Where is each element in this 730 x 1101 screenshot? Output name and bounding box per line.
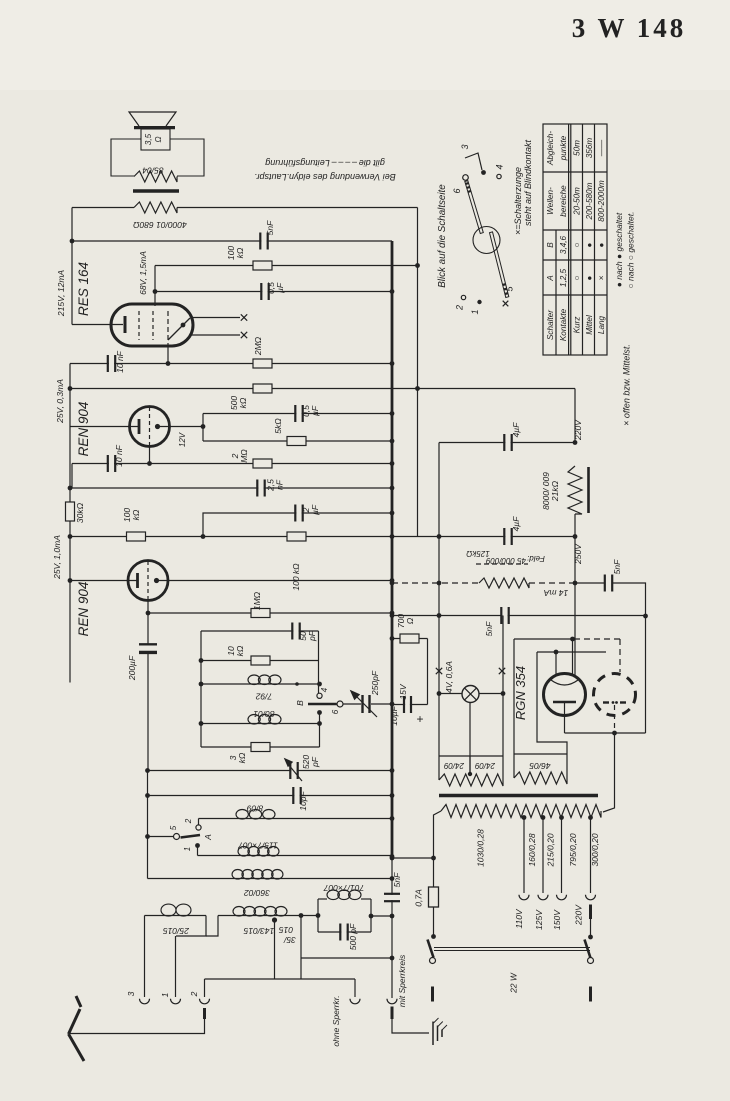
- node bus / 2M: [390, 361, 395, 366]
- wire coil 7/92 line y684: [201, 683, 320, 685]
- node rail B grid V3: [68, 578, 73, 583]
- coil L3 8/09: [236, 810, 248, 820]
- wire to ground: [392, 1019, 429, 1033]
- capacitor 500pF C19: [341, 923, 346, 942]
- vertical 80/01 to 3k: [319, 724, 321, 748]
- wire 5nF to corner: [613, 583, 646, 616]
- svg-text:015: 015: [279, 925, 293, 935]
- loop right vertical: [370, 899, 372, 932]
- wire 1M line y613: [148, 612, 392, 614]
- svg-text:200µF: 200µF: [127, 655, 137, 681]
- node 220V: [573, 440, 578, 445]
- resistor 30k R6: [66, 502, 75, 521]
- svg-text:3: 3: [126, 991, 136, 996]
- svg-text:6: 6: [331, 709, 340, 714]
- vertical 50pF to contact4: [318, 631, 320, 693]
- wire 360/02 line y878: [148, 878, 393, 880]
- svg-text:110V: 110V: [514, 908, 524, 929]
- wire V3 cathode drop: [147, 601, 149, 646]
- wire 25/015 line y916: [145, 915, 207, 917]
- wire 0,5uF line y414: [203, 413, 392, 415]
- node cathode 1M junction: [146, 611, 151, 616]
- svg-text:Wellen-: Wellen-: [546, 187, 555, 215]
- wire 100k line y536: [70, 536, 392, 538]
- svg-text:4µF: 4µF: [511, 516, 521, 532]
- wire 5nF line y615: [392, 615, 646, 617]
- switch A contact 5: [174, 834, 180, 840]
- wire 680ohm line left to rail A: [72, 207, 134, 209]
- node switch right: [588, 935, 593, 940]
- node cathode join: [612, 731, 617, 736]
- vertical 21k to 250V: [574, 514, 576, 537]
- switch A contact 2: [196, 825, 201, 830]
- switch link lines: [434, 947, 590, 949]
- tube V1 grid 1 dashed: [138, 311, 140, 340]
- x contact mark upper: [241, 314, 247, 320]
- node rail A / 5nF line: [70, 239, 75, 244]
- wire y979 ohne Sperrkreis: [205, 978, 356, 980]
- svg-text:steht auf Blindkontakt: steht auf Blindkontakt: [523, 139, 533, 226]
- capacitor 200uF C8: [138, 646, 158, 652]
- svg-text:Blick auf die Schaltseite: Blick auf die Schaltseite: [437, 184, 448, 288]
- node bus 100k line: [390, 534, 395, 539]
- resistor 1M R9: [251, 609, 270, 618]
- svg-text:5nF: 5nF: [612, 559, 622, 574]
- svg-text:REN 904: REN 904: [76, 582, 91, 637]
- terminal 125V: [538, 895, 548, 900]
- capacitor 10uF C11: [405, 695, 410, 714]
- socket 2: [200, 999, 210, 1004]
- wire 8/09 line y818: [199, 818, 393, 820]
- svg-text:2MΩ: 2MΩ: [253, 336, 263, 356]
- vertical x503 lamp to heater: [502, 616, 504, 781]
- wire speaker loop right: [170, 139, 204, 176]
- vertical x439 left of lamp block: [438, 443, 440, 781]
- svg-text:85/04: 85/04: [142, 166, 164, 176]
- wire 100k anode line y265: [155, 265, 418, 267]
- wire rect top y639: [514, 638, 573, 640]
- svg-text:795/0,20: 795/0,20: [568, 833, 578, 866]
- coil tap 143: [272, 917, 277, 922]
- svg-text:125V: 125V: [534, 909, 544, 930]
- resistor 2M R2: [253, 359, 272, 368]
- svg-text:kΩ: kΩ: [237, 752, 247, 763]
- antenna symbol: [69, 1009, 81, 1034]
- node bus 0,5uF C4: [390, 411, 395, 416]
- svg-text:356m: 356m: [585, 138, 594, 159]
- switch contact 3 solid: [317, 710, 322, 715]
- node x417 100k line: [415, 263, 420, 268]
- wire 250V to 5nF right: [575, 582, 604, 584]
- node fuse top: [431, 856, 436, 861]
- tube V3 anode dot: [154, 578, 159, 583]
- wire 220V to switch: [590, 919, 592, 937]
- corner 700ohm down: [427, 639, 429, 705]
- tube V4 cathode stub: [564, 703, 566, 733]
- tap lead down: [274, 920, 276, 979]
- x mark shaft: [503, 301, 509, 307]
- svg-text:215/0,20: 215/0,20: [546, 833, 556, 867]
- node bus 2,5nF: [390, 486, 395, 491]
- switch contact 4 open: [317, 693, 322, 698]
- capacitor 50pF C9: [293, 622, 298, 641]
- wire speaker loop left: [111, 139, 141, 176]
- svg-text:12V: 12V: [178, 432, 187, 447]
- svg-text:1MΩ: 1MΩ: [252, 591, 262, 610]
- node 250V: [573, 534, 578, 539]
- wire 115/7x007 line y855: [198, 855, 393, 857]
- antenna lead wire: [69, 1019, 205, 1034]
- wire coil 80/01 line y723: [201, 723, 320, 725]
- node rail C 520pF: [145, 768, 150, 773]
- winding 24/09 zigzag: [439, 774, 503, 786]
- node bus 5nF line: [390, 613, 395, 618]
- svg-text:25V, 1,0mA: 25V, 1,0mA: [52, 535, 62, 580]
- svg-text:●: ●: [585, 275, 594, 280]
- coil L7 143/015: [233, 907, 245, 917]
- node 80/01 right: [317, 721, 322, 726]
- node bus 1M: [390, 611, 395, 616]
- wire 500k line y389: [70, 388, 418, 390]
- svg-text:50m: 50m: [573, 140, 582, 156]
- svg-text:46/05: 46/05: [529, 761, 551, 771]
- node bus 250pF: [390, 702, 395, 707]
- shaft hatch bottom: [503, 283, 506, 286]
- svg-text:punkte: punkte: [559, 135, 568, 161]
- coil L2 80/01: [248, 715, 260, 725]
- vertical anode lead RES164 x155: [154, 266, 156, 307]
- node 7/92 right: [295, 682, 299, 686]
- svg-text:24/09: 24/09: [474, 761, 496, 770]
- svg-text:Kurz: Kurz: [573, 317, 582, 334]
- vertical HT secondary x614: [603, 733, 615, 812]
- svg-text:●: ●: [585, 242, 594, 247]
- wire 520pF line y771: [148, 770, 393, 772]
- svg-text:× offen bzw. Mittelst.: × offen bzw. Mittelst.: [622, 344, 632, 426]
- vertical filament lead: [555, 652, 557, 675]
- svg-text:20-50m: 20-50m: [573, 187, 582, 216]
- terminal 220V: [586, 895, 596, 900]
- wire 2uF line y513: [203, 513, 392, 537]
- stub contact3 to 80/01: [319, 713, 321, 724]
- resistor 5k R4: [287, 437, 306, 446]
- svg-text:Bei Verwendung des eldyn.Lauts: Bei Verwendung des eldyn.Lautspr.: [254, 172, 395, 182]
- loop bottom wire: [318, 931, 371, 933]
- capacitor 5nF C1: [261, 232, 266, 251]
- svg-text:15V: 15V: [398, 683, 408, 699]
- node 68V: [153, 289, 158, 294]
- svg-text:REN 904: REN 904: [76, 402, 91, 457]
- svg-text:×: ×: [597, 275, 606, 280]
- vertical anode link x203: [202, 414, 204, 442]
- svg-text:○: ○: [573, 275, 582, 280]
- wire bus thin x392 down: [391, 858, 393, 998]
- tube V4 RGN354 solid bulb: [544, 674, 586, 716]
- svg-text:+: +: [416, 712, 423, 726]
- svg-text:0,7A: 0,7A: [414, 889, 424, 907]
- tube V4 cathode bar: [553, 701, 576, 704]
- center tap 24/09: [469, 703, 471, 774]
- wire 700ohm y638: [392, 638, 428, 640]
- capacitor 5nF C16 on bus: [383, 895, 401, 900]
- svg-text:bereiche: bereiche: [559, 185, 568, 217]
- svg-text:MΩ: MΩ: [239, 449, 249, 463]
- node bus 2uF: [390, 511, 395, 516]
- resistor 100k R8: [287, 532, 306, 541]
- node 2uF drop: [201, 534, 206, 539]
- node 143 right: [299, 913, 304, 918]
- wire cathode line y463: [72, 463, 392, 465]
- switch bar right: [589, 987, 592, 1002]
- tap lead 110V: [523, 818, 525, 894]
- svg-text:35/: 35/: [282, 935, 295, 945]
- tap dots: [522, 815, 527, 820]
- corner lead down to rail join: [71, 464, 73, 488]
- svg-text:RGN 354: RGN 354: [513, 666, 528, 720]
- tube V2 anode dot: [155, 424, 160, 429]
- capacitor 2,5nF C6: [258, 479, 263, 498]
- winding 46/05 right lead: [537, 652, 567, 778]
- svg-text:ohne Sperrkr.: ohne Sperrkr.: [331, 995, 341, 1046]
- node bus / 0,5uF: [390, 289, 395, 294]
- switch blade right: [585, 940, 591, 959]
- tube V1 grid 3 dash-dot: [167, 311, 169, 345]
- svg-text:5nF: 5nF: [484, 621, 494, 636]
- tube V2 REN904 envelope: [130, 407, 170, 447]
- shaft hatch top: [466, 183, 469, 184]
- shaft upper: [465, 181, 484, 234]
- fuse 0,7A: [429, 887, 439, 907]
- svg-text:24/09: 24/09: [443, 761, 465, 770]
- svg-text:8/09: 8/09: [246, 804, 263, 814]
- node bus 5k: [390, 439, 395, 444]
- wire lamp right: [479, 693, 503, 695]
- dashed stub V4b: [614, 705, 616, 731]
- tube V1 grid 2 dashed: [152, 311, 154, 340]
- vertical 250V down x575: [574, 537, 576, 677]
- vertical left to socket3: [144, 916, 146, 998]
- trimmer 520pF C17: [291, 761, 296, 780]
- svg-text:5kΩ: 5kΩ: [273, 418, 283, 434]
- shaft lower: [490, 232, 509, 298]
- svg-text:Schalter: Schalter: [546, 310, 555, 340]
- resistor 100k R1: [253, 261, 272, 270]
- contact 3 dot: [481, 170, 486, 175]
- tap lead 125V: [542, 818, 544, 894]
- switch A contact 1: [195, 843, 200, 848]
- svg-text:250pF: 250pF: [370, 670, 380, 696]
- node 10k left: [199, 658, 204, 663]
- box left x514: [513, 639, 515, 778]
- node bus 115/7: [390, 854, 395, 859]
- lamp LA1: [462, 686, 479, 703]
- node x439 on 4uF line: [437, 534, 442, 539]
- wire antenna coupling y958: [301, 957, 392, 959]
- rotor circle: [473, 227, 500, 254]
- field coil dashed zigzag 45000/009: [479, 578, 529, 588]
- svg-text:160/0,28: 160/0,28: [527, 833, 537, 866]
- wire V3 anode line: [157, 580, 393, 582]
- capacitor 250pF variable C10: [361, 695, 371, 713]
- resistor 700ohm R12: [400, 634, 419, 643]
- tube V2 grid dashed: [149, 407, 151, 446]
- svg-text:25/015: 25/015: [163, 926, 190, 936]
- arrow 520pF: [288, 764, 302, 781]
- svg-text:µF: µF: [275, 282, 285, 293]
- vertical x417 (215V rail): [417, 208, 419, 537]
- svg-text:220V: 220V: [573, 419, 583, 441]
- wave range table: [543, 124, 607, 355]
- node bus 700ohm: [390, 636, 395, 641]
- svg-text:4µF: 4µF: [511, 422, 521, 438]
- svg-text:1: 1: [183, 847, 192, 851]
- svg-text:kΩ: kΩ: [131, 509, 141, 520]
- node rect top: [570, 637, 575, 642]
- svg-text:10 nF: 10 nF: [114, 444, 124, 467]
- arrow of 250pF: [356, 696, 377, 717]
- node bus 8/09: [390, 816, 395, 821]
- svg-text:5: 5: [169, 825, 178, 830]
- svg-text:RES 164: RES 164: [76, 262, 91, 316]
- svg-text:4: 4: [495, 164, 505, 169]
- capacitor 10pF C18: [294, 786, 299, 805]
- coil L6 25/015: [161, 904, 176, 916]
- svg-text:800-2000m: 800-2000m: [597, 180, 606, 222]
- coil L1 7/92: [248, 675, 260, 685]
- node loop line: [390, 914, 395, 919]
- svg-text:Abgleich-: Abgleich-: [546, 131, 555, 166]
- svg-text:22 W: 22 W: [509, 972, 519, 994]
- node bus field line: [390, 581, 395, 586]
- contact 1 shaft: [477, 300, 481, 304]
- svg-text:µF: µF: [310, 405, 320, 416]
- speaker LS1 cone: [129, 112, 176, 126]
- mains primary zigzag 1030/0,28: [441, 805, 601, 818]
- svg-text:kΩ: kΩ: [238, 397, 248, 408]
- svg-text:Lang: Lang: [597, 315, 606, 334]
- node rail B 2,5nF: [68, 486, 73, 491]
- rail A vertical x72: [71, 208, 73, 325]
- svg-text:6: 6: [452, 188, 462, 193]
- capacitor 5nF C15: [502, 606, 507, 625]
- svg-text:Ω: Ω: [154, 136, 163, 142]
- transformer T1 secondary 4000/01 680ohm zigzag: [134, 202, 177, 213]
- node bus 2M R5: [390, 461, 395, 466]
- wire V2 grid line: [70, 426, 138, 428]
- svg-text:B: B: [295, 700, 305, 706]
- svg-text:2: 2: [184, 818, 193, 824]
- wire 10k line y660: [201, 660, 319, 662]
- svg-text:4000/01 680Ω: 4000/01 680Ω: [133, 220, 187, 230]
- switch blade left: [428, 940, 434, 958]
- capacitor 2uF C7: [296, 504, 301, 523]
- node field line right: [573, 581, 578, 586]
- svg-text:nF: nF: [275, 479, 285, 490]
- bar mit Sperrkreis: [391, 1007, 394, 1020]
- svg-text:7/92: 7/92: [255, 692, 272, 702]
- tap lead 220V: [590, 818, 592, 894]
- winding 46/05 top line: [514, 753, 567, 755]
- dashed field wire left part: [392, 582, 479, 584]
- svg-text:4: 4: [320, 687, 329, 692]
- node x439 5nF: [437, 613, 442, 618]
- transformer T1 core bar: [133, 189, 179, 192]
- vertical x645 down: [645, 616, 647, 733]
- socket ohne Sperrkr: [354, 979, 356, 997]
- svg-text:215V, 12mA: 215V, 12mA: [56, 270, 66, 317]
- wire V3 grid line: [70, 580, 137, 582]
- wire 2,5nF line y488: [70, 487, 392, 489]
- capacitor 10nF C5: [109, 454, 114, 473]
- node rail B 100k: [68, 534, 73, 539]
- coil L4 115/7x007: [238, 847, 249, 857]
- svg-text:115/7×007: 115/7×007: [238, 841, 278, 851]
- terminal 150V: [557, 895, 567, 900]
- bar beside 21k: [587, 467, 590, 513]
- socket mit Sperrkreis: [387, 999, 397, 1004]
- tube V1 anode diagonal: [168, 318, 190, 340]
- contact 6 open: [463, 175, 469, 181]
- x mark left lamp: [436, 668, 442, 674]
- divider 24/09: [469, 756, 471, 772]
- node rail C switch A: [145, 834, 150, 839]
- capacitor 5nF C14: [606, 574, 611, 593]
- svg-text:10pF: 10pF: [298, 791, 308, 811]
- svg-text:Mittel: Mittel: [585, 315, 594, 335]
- plug bar socket2: [203, 1008, 206, 1019]
- svg-text:68V, 1,5mA: 68V, 1,5mA: [138, 251, 148, 295]
- wire cathode bottom y733: [565, 732, 646, 734]
- svg-text:3,4,6: 3,4,6: [559, 235, 568, 254]
- winding 24/09 top line: [439, 755, 503, 757]
- node loop left: [316, 913, 321, 918]
- wire lamp left: [439, 693, 462, 695]
- node rail B 25V line: [68, 386, 73, 391]
- dashed vertical to anode2: [619, 639, 621, 672]
- wire V1 grid3 lead down: [167, 345, 169, 364]
- capacitor 4uF C12: [505, 433, 510, 452]
- svg-text:kΩ: kΩ: [235, 645, 245, 656]
- coil L8 701/7x007: [318, 898, 327, 900]
- node rail C 10pF: [145, 793, 150, 798]
- node loop right: [369, 914, 374, 919]
- fuse lead lower: [433, 907, 435, 937]
- svg-text:21kΩ: 21kΩ: [550, 480, 560, 502]
- wire V2 anode: [158, 426, 204, 428]
- socket 1: [171, 999, 181, 1004]
- svg-text:1: 1: [160, 992, 170, 997]
- wire filament line y652: [537, 651, 606, 653]
- capacitor 0,5uF C4: [296, 404, 301, 423]
- svg-text:——: ——: [597, 139, 606, 157]
- wire loop to bus: [371, 915, 392, 917]
- wire switch6 to 250pF y704: [343, 703, 392, 705]
- node bus 10pF: [390, 793, 395, 798]
- tube V1 RES164 envelope: [111, 304, 193, 346]
- wire 10pF line y795: [148, 795, 393, 797]
- vertical socket1: [175, 936, 177, 997]
- node bus bottom: [390, 856, 395, 861]
- svg-text:2: 2: [455, 305, 465, 311]
- capacitor 4uF C13: [505, 527, 510, 546]
- node x439 field: [437, 581, 442, 586]
- node anode junction V2: [201, 424, 206, 429]
- svg-text:gilt die – – – – Leitungsführu: gilt die – – – – Leitungsführung: [265, 158, 385, 168]
- svg-text:14 mA: 14 mA: [543, 588, 568, 598]
- resistor 10k R10: [251, 656, 270, 665]
- wire 4uF top line y442: [439, 442, 575, 444]
- svg-text:1: 1: [470, 309, 480, 314]
